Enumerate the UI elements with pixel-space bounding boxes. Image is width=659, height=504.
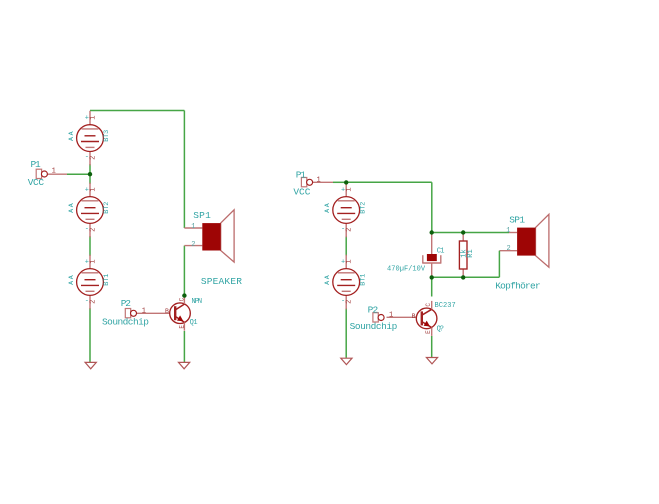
svg-text:SP1: SP1: [509, 214, 525, 225]
svg-text:1: 1: [389, 312, 393, 320]
svg-text:AA: AA: [68, 131, 75, 141]
svg-text:2: 2: [346, 300, 354, 304]
svg-text:+: +: [341, 258, 345, 266]
svg-text:AA: AA: [324, 275, 331, 285]
svg-text:C: C: [425, 303, 432, 307]
svg-text:BT1: BT1: [103, 274, 111, 286]
svg-text:R1: R1: [467, 249, 475, 257]
svg-text:1: 1: [89, 115, 97, 119]
svg-text:1: 1: [317, 176, 321, 184]
svg-text:E: E: [425, 330, 432, 334]
svg-text:2: 2: [89, 156, 97, 160]
svg-text:BT3: BT3: [103, 130, 111, 142]
svg-text:B: B: [165, 308, 169, 315]
svg-text:1: 1: [191, 223, 195, 231]
svg-text:+: +: [341, 186, 345, 194]
svg-text:P2: P2: [121, 298, 131, 309]
svg-text:1: 1: [142, 307, 146, 315]
svg-text:AA: AA: [68, 203, 75, 213]
svg-text:BT2: BT2: [103, 202, 111, 214]
svg-text:VCC: VCC: [28, 177, 45, 188]
svg-text:VCC: VCC: [293, 187, 310, 198]
svg-text:BT1: BT1: [359, 274, 367, 286]
svg-text:C: C: [179, 297, 186, 301]
svg-text:BT2: BT2: [359, 202, 367, 214]
svg-text:2: 2: [191, 241, 195, 249]
svg-text:E: E: [179, 325, 186, 329]
svg-text:C1: C1: [437, 248, 445, 256]
svg-text:1: 1: [346, 259, 354, 263]
svg-text:P1: P1: [31, 159, 41, 170]
svg-text:Kopfhörer: Kopfhörer: [495, 281, 541, 292]
svg-text:1: 1: [89, 259, 97, 263]
svg-text:B: B: [412, 313, 416, 320]
svg-text:P1: P1: [296, 170, 306, 181]
svg-text:-: -: [85, 225, 89, 233]
svg-text:-: -: [85, 154, 89, 162]
svg-text:2: 2: [89, 228, 97, 232]
svg-text:1: 1: [52, 167, 56, 175]
svg-text:-: -: [341, 225, 345, 233]
svg-text:2: 2: [507, 245, 511, 253]
svg-text:2: 2: [346, 228, 354, 232]
svg-text:Soundchip: Soundchip: [350, 321, 398, 332]
svg-text:1: 1: [506, 227, 510, 235]
svg-text:1: 1: [346, 187, 354, 191]
svg-text:BC237: BC237: [435, 302, 456, 310]
svg-text:470µF/10V: 470µF/10V: [387, 265, 426, 273]
svg-text:AA: AA: [324, 203, 331, 213]
svg-text:+: +: [85, 115, 89, 123]
svg-text:-: -: [341, 297, 345, 305]
svg-text:Soundchip: Soundchip: [102, 317, 149, 328]
svg-text:SP1: SP1: [193, 210, 211, 221]
svg-text:+: +: [85, 186, 89, 194]
svg-text:NPN: NPN: [192, 298, 203, 306]
svg-text:AA: AA: [68, 275, 75, 285]
svg-text:Q?: Q?: [437, 325, 444, 333]
svg-text:P2: P2: [368, 304, 379, 315]
svg-text:Q1: Q1: [190, 319, 198, 327]
svg-text:+: +: [85, 258, 89, 266]
svg-text:1: 1: [89, 187, 97, 191]
svg-text:SPEAKER: SPEAKER: [201, 276, 242, 287]
svg-text:-: -: [85, 297, 89, 305]
svg-text:2: 2: [89, 300, 97, 304]
